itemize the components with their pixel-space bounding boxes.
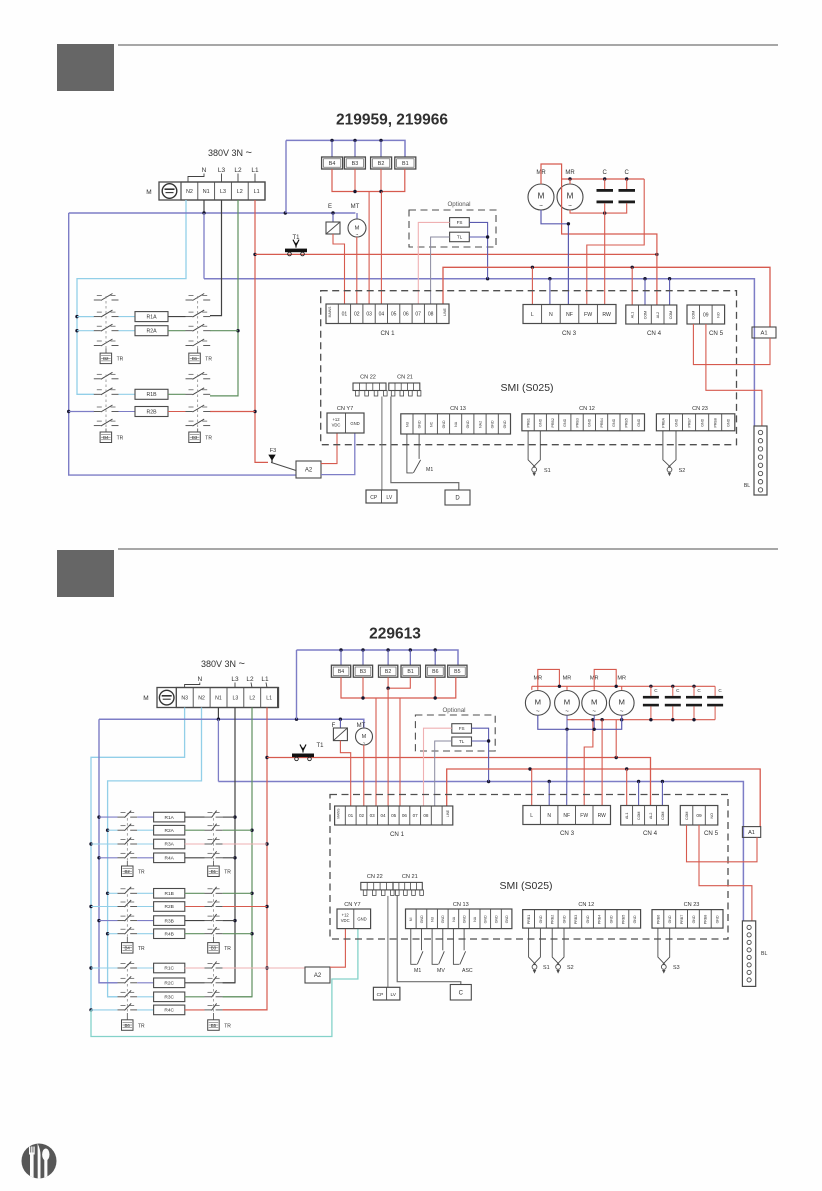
svg-text:~: ~ xyxy=(356,232,359,237)
red main bus 1 xyxy=(255,253,657,255)
svg-text:04: 04 xyxy=(379,312,385,318)
contact group A switches left xyxy=(94,299,101,301)
svg-text:GND: GND xyxy=(441,915,445,923)
svg-text:FW: FW xyxy=(580,813,588,819)
svg-text:A1: A1 xyxy=(748,830,755,836)
svg-text:~: ~ xyxy=(539,203,543,210)
relay B2 diagram 2 xyxy=(387,650,389,665)
svg-text:CP: CP xyxy=(370,495,378,501)
svg-text:TR: TR xyxy=(224,870,231,876)
blue bus lower to A1/BL xyxy=(204,279,754,426)
svg-text:B3: B3 xyxy=(360,669,366,675)
svg-text:03: 03 xyxy=(366,312,372,318)
wire N2 cyan feeder xyxy=(77,200,186,394)
svg-text:GND: GND xyxy=(588,418,592,426)
svg-text:NU: NU xyxy=(431,916,435,922)
svg-text:L: L xyxy=(531,312,534,318)
svg-text:R4A: R4A xyxy=(165,856,175,862)
wire MT to CN1-02 xyxy=(356,237,358,304)
thermostat B6 TR diagram 2 xyxy=(126,1013,128,1020)
connector BL diagram 2 xyxy=(742,921,755,987)
module A2 xyxy=(296,461,321,478)
svg-text:MR: MR xyxy=(563,676,572,682)
svg-text:L1: L1 xyxy=(261,676,269,683)
svg-text:B1: B1 xyxy=(402,161,409,167)
svg-text:PRB2: PRB2 xyxy=(551,915,555,924)
svg-text:N1: N1 xyxy=(203,189,210,195)
relay B1 diagram 2 xyxy=(409,650,411,665)
svg-text:LV: LV xyxy=(390,992,396,998)
svg-text:R4C: R4C xyxy=(164,1008,174,1014)
svg-text:N: N xyxy=(547,813,551,819)
svg-text:L1: L1 xyxy=(251,167,259,174)
svg-text:B3: B3 xyxy=(211,946,217,951)
svg-text:AL1: AL1 xyxy=(631,312,635,318)
relay B3 diagram 2 xyxy=(362,650,364,665)
wire CN4 AL1 drop xyxy=(631,267,633,305)
wire A2 to +12VDC xyxy=(321,433,337,464)
svg-text:08: 08 xyxy=(428,312,434,318)
resistor R1A xyxy=(99,816,118,818)
svg-text:TR: TR xyxy=(205,357,212,363)
svg-text:GND: GND xyxy=(539,418,543,426)
sensor S1 diagram 2 xyxy=(529,928,536,965)
svg-text:LV: LV xyxy=(386,495,392,501)
svg-text:VDC: VDC xyxy=(341,918,350,923)
svg-text:GND: GND xyxy=(357,917,366,922)
svg-text:TR: TR xyxy=(138,870,145,876)
wire B rail to CN1-03 xyxy=(368,192,370,305)
blue bus to B relays diagram 2 xyxy=(297,650,459,665)
svg-text:M: M xyxy=(535,697,541,706)
svg-text:AL2: AL2 xyxy=(656,312,660,318)
relay B1 xyxy=(395,157,416,169)
contact group C switches left diagram 2 xyxy=(118,967,125,969)
svg-text:M: M xyxy=(591,697,597,706)
svg-text:01: 01 xyxy=(342,312,348,318)
section marker square 2 xyxy=(57,550,114,597)
svg-text:L1: L1 xyxy=(266,695,272,701)
svg-text:R1B: R1B xyxy=(165,891,174,897)
wire CN21 to C diagram 2 xyxy=(397,896,461,985)
svg-text:F3: F3 xyxy=(270,448,276,454)
relay B5 diagram 2 xyxy=(448,665,467,677)
svg-text:GND: GND xyxy=(612,418,616,426)
blue bus upper diagram 2 xyxy=(99,719,364,728)
svg-text:FS: FS xyxy=(457,220,463,225)
svg-text:E: E xyxy=(328,204,332,210)
svg-text:R1A: R1A xyxy=(146,315,157,321)
resistor R1B xyxy=(108,892,118,894)
svg-text:02: 02 xyxy=(359,813,365,818)
svg-text:B3: B3 xyxy=(192,435,198,440)
wire F to CN1-01 xyxy=(340,741,350,806)
wire cyan to row A3 xyxy=(77,330,94,332)
resistor R3A xyxy=(91,843,118,845)
red staple over MR and down to bus1 xyxy=(541,164,657,305)
svg-text:GND: GND xyxy=(692,915,696,923)
svg-text:CN 22: CN 22 xyxy=(360,375,376,381)
svg-text:PRB8: PRB8 xyxy=(704,915,708,924)
wire optional to CN1-07 xyxy=(418,222,449,304)
svg-text:TR: TR xyxy=(224,1023,231,1029)
svg-text:TR: TR xyxy=(117,436,124,442)
svg-text:+12: +12 xyxy=(332,417,340,422)
svg-text:PRB7: PRB7 xyxy=(688,418,692,427)
red staple MR1 MR2 diagram 2 xyxy=(538,669,560,690)
svg-text:03: 03 xyxy=(370,813,376,818)
wire blue rail to NF diagram 2 xyxy=(566,729,568,805)
svg-text:NO: NO xyxy=(710,813,714,819)
svg-text:COM: COM xyxy=(685,812,689,820)
module A2 diagram 2 xyxy=(305,967,330,983)
svg-text:PRB7: PRB7 xyxy=(680,915,684,924)
svg-text:LINE: LINE xyxy=(443,307,447,315)
svg-text:MR: MR xyxy=(565,170,575,176)
svg-text:B2: B2 xyxy=(103,356,109,361)
module A1 xyxy=(752,327,776,338)
svg-text:~: ~ xyxy=(620,708,624,715)
svg-text:A2: A2 xyxy=(314,973,322,979)
svg-text:GND: GND xyxy=(491,420,495,428)
svg-text:Optional: Optional xyxy=(447,201,470,208)
svg-text:GND: GND xyxy=(539,915,543,923)
sensor S1 xyxy=(528,431,535,468)
svg-text:R2C: R2C xyxy=(164,981,174,987)
svg-text:B2: B2 xyxy=(378,161,385,167)
sensor S2 xyxy=(663,431,671,468)
blue bus lower diagram 2 xyxy=(218,782,743,921)
svg-text:B4: B4 xyxy=(125,946,131,951)
svg-text:BL: BL xyxy=(761,951,767,957)
svg-text:GND: GND xyxy=(637,418,641,426)
svg-text:CN 1: CN 1 xyxy=(390,831,405,838)
contact group A switches right xyxy=(186,299,193,301)
switch MV diagram 2 xyxy=(432,929,438,965)
svg-text:TL: TL xyxy=(457,235,463,240)
mechanical link group A diagram 2 xyxy=(126,813,128,861)
svg-text:FS: FS xyxy=(459,726,465,731)
svg-text:L3: L3 xyxy=(220,189,226,195)
wire rail right to FW xyxy=(587,179,644,304)
svg-text:COM: COM xyxy=(669,311,673,319)
relay B4 xyxy=(331,140,333,157)
wire CN5 09 to BL diagram 2 xyxy=(699,825,752,921)
svg-text:B4: B4 xyxy=(338,669,344,675)
svg-text:B2: B2 xyxy=(385,669,391,675)
blue bus to B relays xyxy=(286,140,405,157)
wire E to CN1-01 xyxy=(333,234,345,304)
red rail under B relays xyxy=(332,169,405,192)
optional relay TL diagram 2 xyxy=(452,737,472,746)
svg-text:L3: L3 xyxy=(231,676,239,683)
module A1 diagram 2 xyxy=(742,827,760,838)
svg-text:CN 22: CN 22 xyxy=(367,874,383,880)
svg-text:~: ~ xyxy=(536,708,540,715)
svg-text:PRB3: PRB3 xyxy=(576,418,580,427)
wire optional to CN1-08 xyxy=(431,237,450,304)
thermostat B1 TR diagram 2 xyxy=(213,861,215,866)
connector BL xyxy=(754,426,767,495)
svg-text:GND: GND xyxy=(701,418,705,426)
wire red to row B3 xyxy=(210,411,255,413)
svg-text:PRB1: PRB1 xyxy=(527,915,531,924)
svg-text:C: C xyxy=(625,170,630,176)
svg-text:S2: S2 xyxy=(567,965,574,971)
resistor R4B xyxy=(108,933,118,935)
svg-text:CN Y7: CN Y7 xyxy=(344,902,360,908)
svg-text:M: M xyxy=(564,697,570,706)
svg-text:CN 4: CN 4 xyxy=(643,830,658,837)
svg-text:CN 3: CN 3 xyxy=(560,830,575,837)
wire MT to CN1-02 xyxy=(363,745,365,806)
wire B2 B1 pair diagram 2 xyxy=(388,677,410,688)
svg-text:GND: GND xyxy=(462,915,466,923)
svg-text:N3: N3 xyxy=(181,695,188,701)
svg-text:R1A: R1A xyxy=(165,815,175,821)
svg-text:C: C xyxy=(718,688,722,693)
wire L1 drop diagram 2 xyxy=(223,708,267,1010)
sensor S2 diagram 2 xyxy=(552,928,559,965)
resistor R2A xyxy=(108,829,118,831)
thermostat B3 TR xyxy=(197,429,199,433)
svg-text:B1: B1 xyxy=(192,356,198,361)
svg-text:07: 07 xyxy=(413,813,419,818)
resistor R3C xyxy=(108,996,118,998)
svg-text:L3: L3 xyxy=(233,695,239,701)
svg-text:380V 3N ~: 380V 3N ~ xyxy=(201,658,245,670)
svg-text:TR: TR xyxy=(138,946,145,952)
svg-text:PRB8: PRB8 xyxy=(714,418,718,427)
resistor R4A xyxy=(99,857,118,859)
svg-text:VDC: VDC xyxy=(332,423,341,428)
svg-text:L2: L2 xyxy=(234,167,242,174)
svg-text:R4B: R4B xyxy=(165,931,174,937)
svg-text:GND: GND xyxy=(716,915,720,923)
contact group A switches left diagram 2 xyxy=(118,816,125,818)
connector CP LV xyxy=(366,490,397,503)
svg-text:L3: L3 xyxy=(218,167,226,174)
optional relay FS xyxy=(450,218,470,228)
wire B rail to CN1-03 xyxy=(375,698,377,806)
svg-text:B2: B2 xyxy=(125,869,131,874)
svg-text:09: 09 xyxy=(696,813,702,819)
connector CN5 diagram 2 xyxy=(680,806,718,826)
svg-text:TR: TR xyxy=(224,946,231,952)
svg-text:B3: B3 xyxy=(352,161,359,167)
wire capacitor rail to RW xyxy=(604,203,606,304)
wire R1C to module A2 xyxy=(267,967,305,969)
svg-text:M1: M1 xyxy=(426,467,433,473)
svg-text:08: 08 xyxy=(423,813,429,818)
wire N1 to lower blue bus xyxy=(203,213,205,279)
svg-text:S2: S2 xyxy=(679,468,686,474)
svg-text:CP: CP xyxy=(377,992,384,998)
svg-text:RW: RW xyxy=(602,312,611,318)
svg-text:R2A: R2A xyxy=(146,329,157,335)
svg-text:01: 01 xyxy=(348,813,354,818)
svg-text:CN 13: CN 13 xyxy=(450,406,466,412)
resistor R1C xyxy=(91,967,118,969)
thermostat B1 TR xyxy=(197,349,199,354)
wire N1 drop xyxy=(217,708,219,720)
contact group B switches right xyxy=(186,378,193,380)
svg-text:NA: NA xyxy=(454,421,458,427)
svg-text:GND: GND xyxy=(633,915,637,923)
connector CN1 xyxy=(326,304,449,324)
svg-text:LINE: LINE xyxy=(446,810,450,817)
svg-text:CN 5: CN 5 xyxy=(704,830,719,837)
mechanical link group B diagram 2 xyxy=(126,889,128,936)
svg-text:S1: S1 xyxy=(544,468,551,474)
earth terminal circle xyxy=(162,184,177,199)
svg-text:COM: COM xyxy=(661,812,665,820)
svg-text:CN 23: CN 23 xyxy=(692,406,708,412)
svg-text:M: M xyxy=(618,697,624,706)
svg-text:L2: L2 xyxy=(237,189,243,195)
wire L3 drop diagram 2 xyxy=(223,708,235,983)
svg-text:~: ~ xyxy=(565,708,569,715)
svg-text:M: M xyxy=(355,226,360,232)
connector CN4 xyxy=(626,305,677,324)
red main bus 1 diagram 2 xyxy=(267,758,651,806)
svg-text:~: ~ xyxy=(592,708,596,715)
wire N3 cyan feeder xyxy=(91,708,185,1010)
svg-text:NF: NF xyxy=(566,312,573,318)
svg-text:R1B: R1B xyxy=(146,392,157,398)
display C diagram 2 xyxy=(450,985,471,1001)
wire L drop diagram 2 xyxy=(531,769,533,806)
SMI board dashed outline xyxy=(321,291,737,445)
svg-text:RW: RW xyxy=(598,813,607,819)
wire B pair to CN1-04 xyxy=(387,688,389,806)
optional relay FS diagram 2 xyxy=(452,724,472,734)
svg-text:L2: L2 xyxy=(249,695,255,701)
svg-text:PRB5: PRB5 xyxy=(621,915,625,924)
wire CN21 to D xyxy=(391,397,459,491)
svg-text:M: M xyxy=(362,734,366,740)
svg-text:L2: L2 xyxy=(246,676,254,683)
optional relay TL xyxy=(450,232,470,242)
wire N drop xyxy=(549,279,551,304)
wire L2 drop green xyxy=(210,200,238,396)
wire CN22 to CP diagram 2 xyxy=(387,896,389,987)
red rail under capacitors xyxy=(570,203,627,213)
svg-text:+12: +12 xyxy=(342,913,350,918)
wire optional right to blue bus diagram 2 xyxy=(472,728,489,781)
contact group C switches right diagram 2 xyxy=(205,967,212,969)
svg-text:GND: GND xyxy=(442,420,446,428)
svg-text:R2B: R2B xyxy=(165,904,174,910)
svg-text:CN 4: CN 4 xyxy=(647,330,662,337)
svg-text:C: C xyxy=(603,170,608,176)
svg-text:GND: GND xyxy=(420,915,424,923)
svg-text:06: 06 xyxy=(403,312,409,318)
svg-text:N: N xyxy=(202,167,207,174)
svg-text:CN 21: CN 21 xyxy=(397,375,413,381)
blue left feeder diagram 2 xyxy=(99,719,118,983)
svg-text:TR: TR xyxy=(205,436,212,442)
svg-text:CN 23: CN 23 xyxy=(684,902,700,908)
svg-text:B6: B6 xyxy=(125,1023,131,1028)
svg-text:R3B: R3B xyxy=(165,918,174,924)
wire N drop diagram 2 xyxy=(548,782,550,806)
svg-text:229613: 229613 xyxy=(369,626,421,643)
relay B3 xyxy=(354,140,356,157)
svg-text:PRB4: PRB4 xyxy=(598,915,602,924)
svg-text:380V 3N ~: 380V 3N ~ xyxy=(208,147,252,159)
wire CN4 drops diagram 2 xyxy=(626,769,628,806)
svg-text:CN 12: CN 12 xyxy=(579,406,595,412)
wire L drop xyxy=(531,267,533,304)
svg-text:N: N xyxy=(197,676,202,683)
wire N1 to lower blue bus diagram 2 xyxy=(217,719,219,781)
blue left feeder to A2 xyxy=(69,213,296,475)
svg-text:GND: GND xyxy=(466,420,470,428)
svg-text:N2: N2 xyxy=(198,695,205,701)
connector CN1 diagram 2 xyxy=(335,806,453,825)
svg-text:C: C xyxy=(697,688,701,693)
svg-text:R3C: R3C xyxy=(164,995,174,1001)
wire CN22 to CP xyxy=(381,397,383,491)
svg-text:06: 06 xyxy=(402,813,408,818)
svg-text:NF: NF xyxy=(563,813,570,819)
svg-text:R2A: R2A xyxy=(165,828,175,834)
svg-text:ASC: ASC xyxy=(462,968,473,974)
svg-text:SMI (S025): SMI (S025) xyxy=(499,880,552,892)
svg-text:S1: S1 xyxy=(543,965,550,971)
svg-text:PRBA: PRBA xyxy=(661,417,665,427)
svg-text:~: ~ xyxy=(568,203,572,210)
svg-text:TR: TR xyxy=(138,1023,145,1029)
svg-text:S3: S3 xyxy=(673,965,680,971)
connector CN3 xyxy=(523,305,616,324)
svg-text:N1: N1 xyxy=(215,695,222,701)
svg-text:A2: A2 xyxy=(305,468,313,474)
red bus 2 xyxy=(443,267,770,327)
red top rail diagram 2 xyxy=(532,685,715,687)
connector CN5 xyxy=(687,305,725,324)
wire CN4 COM drops xyxy=(644,279,646,305)
svg-text:N: N xyxy=(549,312,553,318)
svg-text:NA2: NA2 xyxy=(478,421,482,428)
svg-text:B5: B5 xyxy=(211,1023,217,1028)
resistor R2B xyxy=(91,906,118,908)
svg-text:C: C xyxy=(459,990,464,996)
svg-text:CN 13: CN 13 xyxy=(453,902,469,908)
svg-text:L1: L1 xyxy=(254,189,260,195)
svg-text:NC: NC xyxy=(430,421,434,427)
svg-text:05: 05 xyxy=(391,813,397,818)
relay B2 xyxy=(380,140,382,157)
svg-text:Optional: Optional xyxy=(442,707,465,714)
resistor R3B xyxy=(99,920,118,922)
svg-text:B4: B4 xyxy=(329,161,336,167)
wire A2 to GND xyxy=(321,433,355,475)
svg-text:CN 5: CN 5 xyxy=(709,330,724,337)
svg-text:GND: GND xyxy=(586,915,590,923)
svg-text:PRB4: PRB4 xyxy=(600,418,604,427)
red bus 2 diagram 2 xyxy=(447,769,761,827)
svg-text:05: 05 xyxy=(391,312,397,318)
svg-text:GND: GND xyxy=(727,418,731,426)
contact group B switches right diagram 2 xyxy=(205,892,212,894)
wire rail to red bus diagram 2 xyxy=(615,720,617,758)
relay B6 diagram 2 xyxy=(434,650,436,665)
thermostat B5 TR diagram 2 xyxy=(213,1013,215,1020)
resistor R2B xyxy=(119,411,136,413)
svg-text:L: L xyxy=(530,813,533,819)
